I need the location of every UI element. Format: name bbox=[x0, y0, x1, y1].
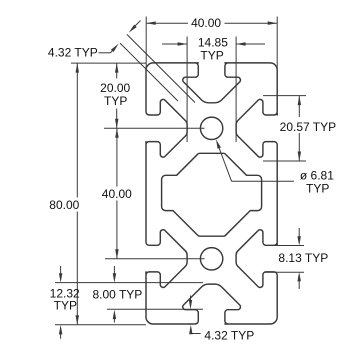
svg-text:40.00: 40.00 bbox=[191, 16, 221, 30]
svg-text:20.57 TYP: 20.57 TYP bbox=[280, 120, 336, 134]
dim 40.00 left dimension line bbox=[116, 128, 118, 186]
svg-text:TYP: TYP bbox=[200, 49, 223, 63]
svg-text:TYP: TYP bbox=[104, 94, 127, 108]
svg-text:14.85: 14.85 bbox=[198, 35, 228, 49]
dim 4.32 top diagonal extension lines bbox=[127, 34, 195, 102]
dim 8.00 extension line bbox=[107, 308, 203, 310]
svg-text:80.00: 80.00 bbox=[49, 198, 79, 212]
dim 14.85 extension lines bbox=[186, 37, 188, 143]
dim 20.57 dimension line bbox=[298, 96, 300, 117]
dim 4.32 bottom leader bbox=[191, 333, 201, 335]
svg-text:4.32 TYP: 4.32 TYP bbox=[48, 45, 98, 59]
dim 8.13 extension lines bbox=[265, 245, 304, 247]
dim 80.00 extension lines bbox=[71, 62, 146, 64]
dim 40.00 top extension lines bbox=[145, 17, 147, 69]
dim 12.32 extension line bbox=[55, 282, 203, 284]
center bore top bbox=[200, 117, 222, 139]
dim 4.32 bottom upper arrow bbox=[190, 296, 192, 304]
svg-text:TYP: TYP bbox=[54, 299, 77, 313]
dim 80.00 dimension line bbox=[76, 63, 78, 197]
svg-text:40.00: 40.00 bbox=[102, 187, 132, 201]
svg-text:TYP: TYP bbox=[306, 182, 329, 196]
dim 14.85 dimension line with outside arrows bbox=[162, 43, 187, 45]
svg-text:8.00 TYP: 8.00 TYP bbox=[92, 288, 142, 302]
dim 20.00 dimension line bbox=[116, 63, 118, 78]
dim 20.57 extension lines bbox=[263, 95, 306, 97]
extension line slot center y=261 bbox=[105, 258, 205, 260]
dim dia 6.81 leader bbox=[232, 180, 295, 182]
dim 12.32 arrows bbox=[60, 266, 62, 276]
svg-text:4.32 TYP: 4.32 TYP bbox=[204, 328, 254, 342]
dim 8.13 arrows bbox=[298, 228, 300, 240]
svg-text:8.13 TYP: 8.13 TYP bbox=[278, 251, 328, 265]
extrusion profile outline bbox=[146, 63, 277, 324]
center bore bottom bbox=[200, 248, 222, 270]
svg-text:ø 6.81: ø 6.81 bbox=[300, 168, 334, 182]
dim 4.32 top arrows bbox=[133, 21, 141, 29]
extension line slot center y=129 bbox=[104, 127, 205, 129]
central cavity octagon bbox=[162, 153, 262, 236]
dim 40.00 top dimension line bbox=[146, 22, 188, 24]
svg-text:20.00: 20.00 bbox=[100, 81, 130, 95]
dim 8.00 arrows bbox=[113, 266, 115, 276]
